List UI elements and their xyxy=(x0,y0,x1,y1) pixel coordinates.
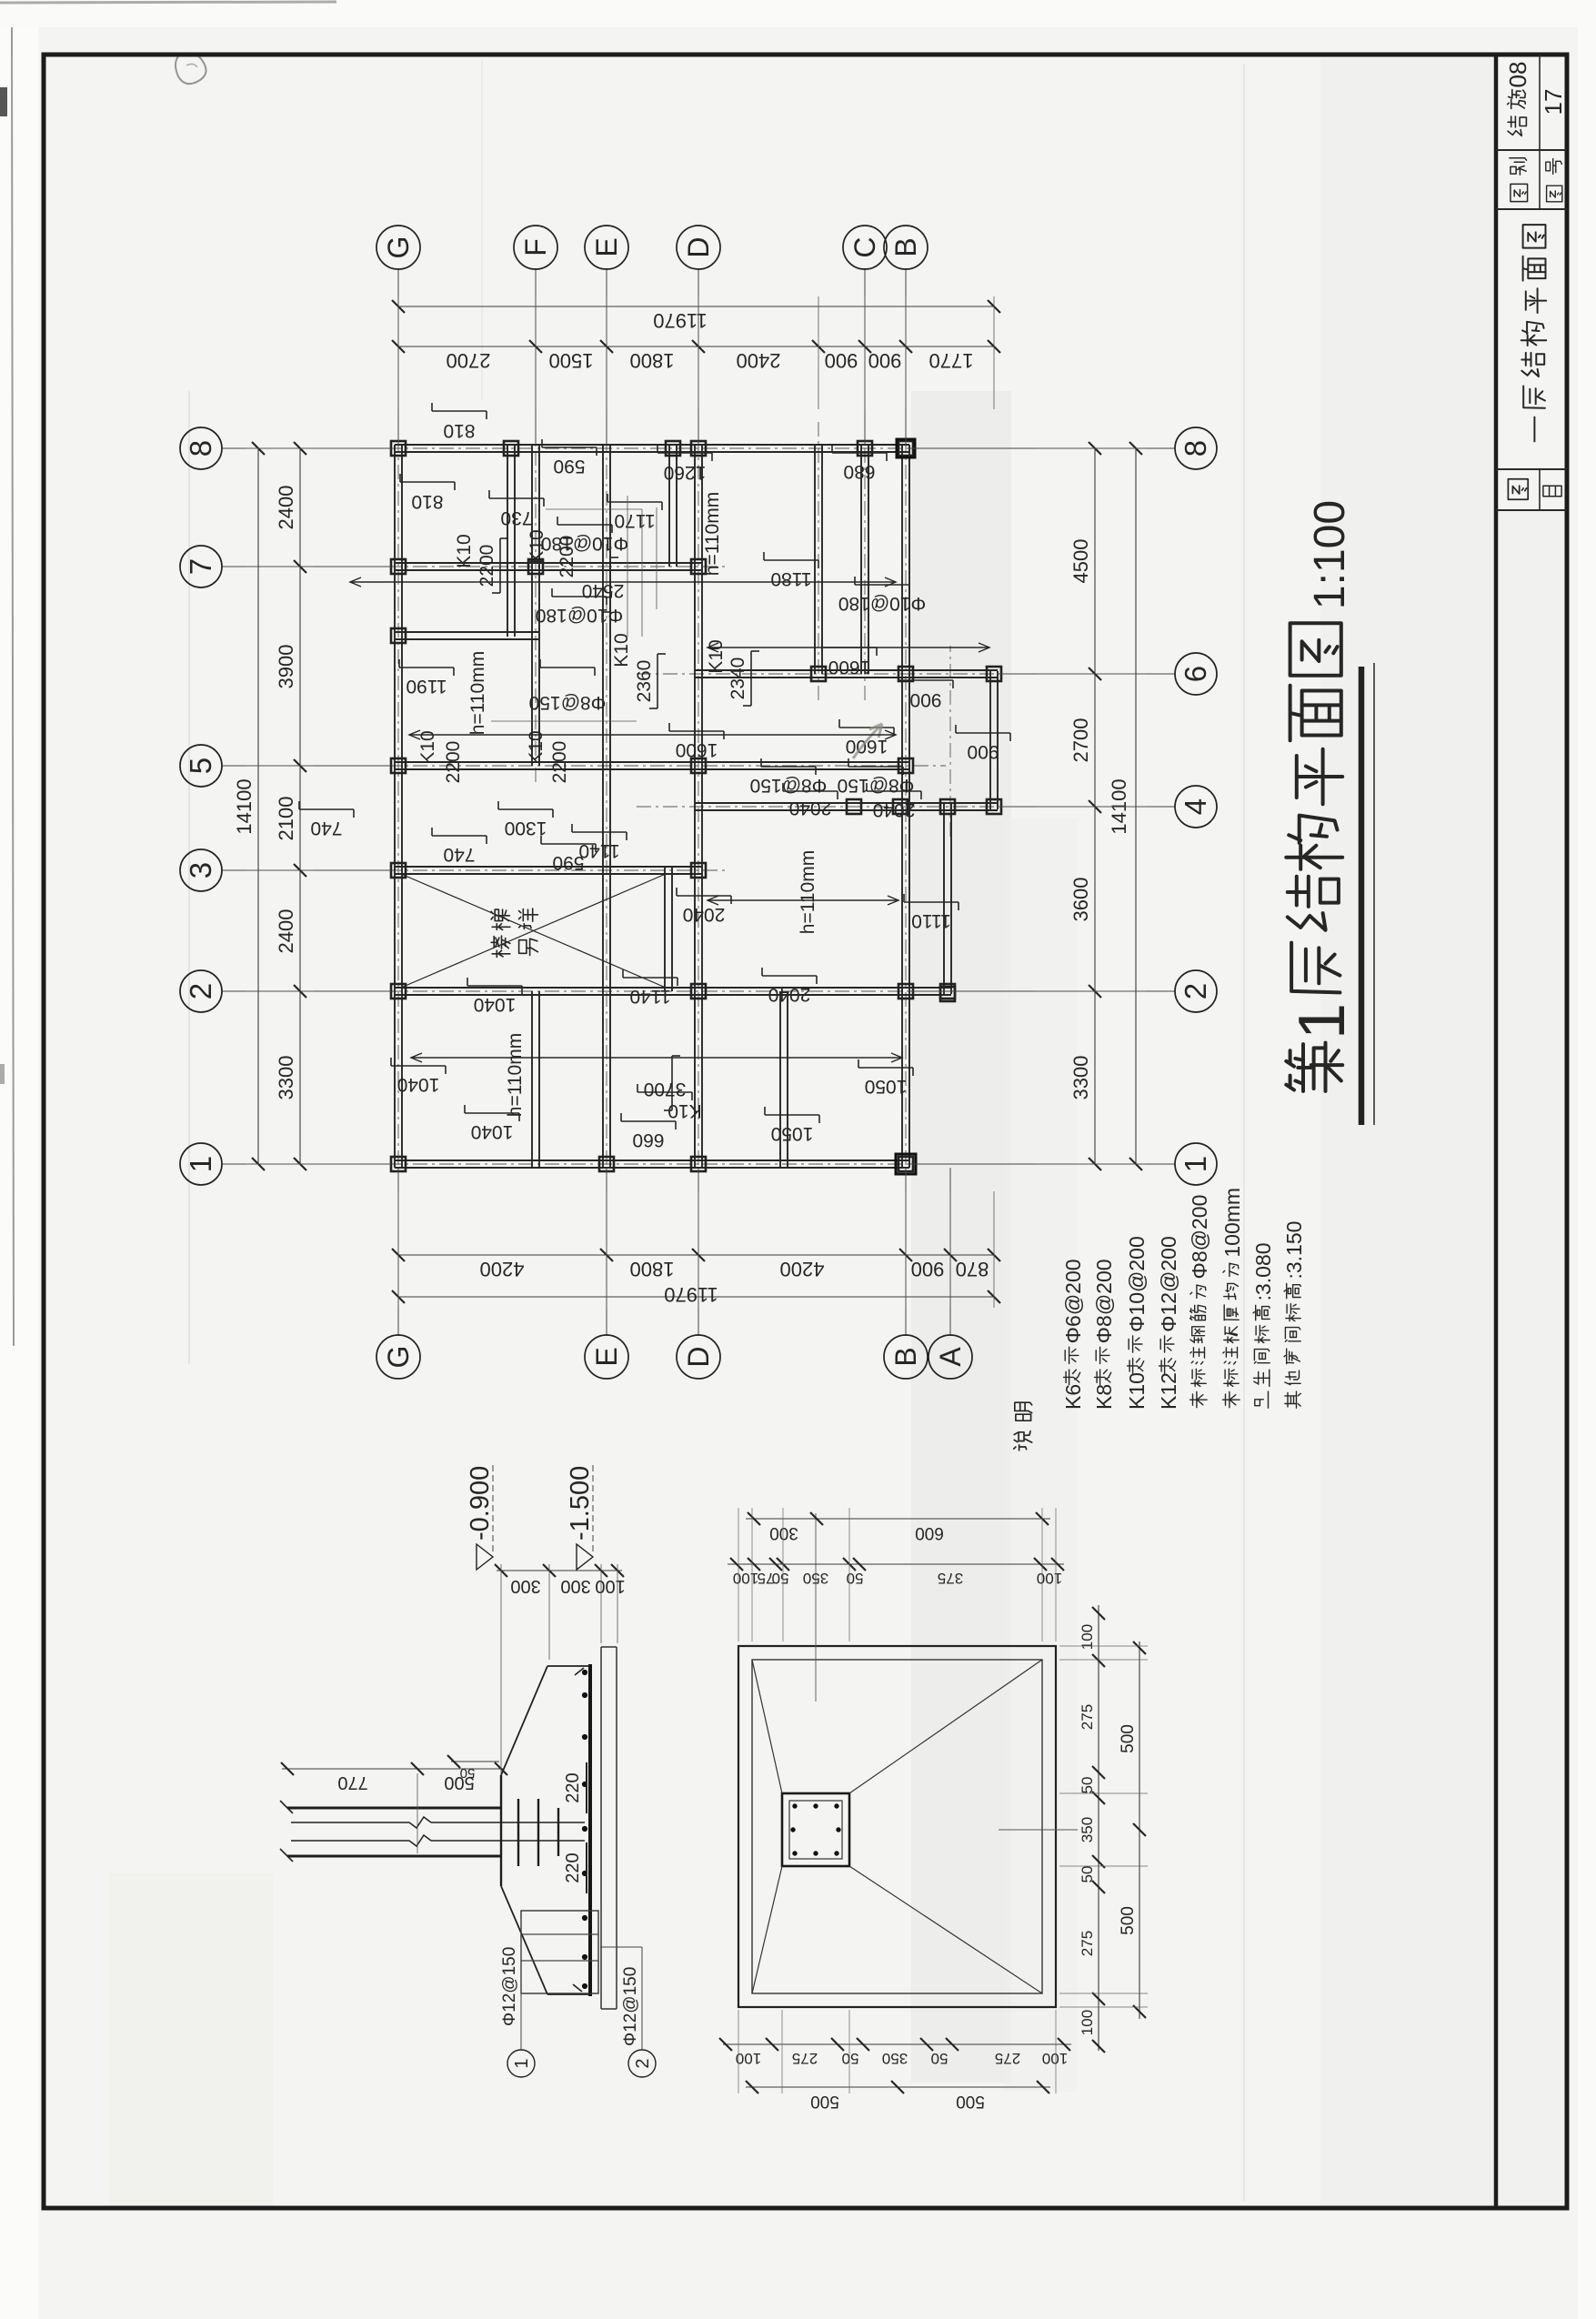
svg-text:1: 1 xyxy=(1286,1003,1359,1039)
svg-text:Φ12@150: Φ12@150 xyxy=(621,1967,640,2046)
plan dim chain bottom outer 500/500 xyxy=(1139,1641,1140,2019)
svg-text:K10: K10 xyxy=(611,633,632,667)
svg-text:3900: 3900 xyxy=(275,645,297,689)
right overall dimension 11970 xyxy=(398,306,994,307)
svg-text:100: 100 xyxy=(1037,1570,1062,1587)
beam along axis 5 xyxy=(395,768,909,770)
beam along axis 4 xyxy=(695,809,998,811)
footing slopes xyxy=(501,1886,547,1994)
svg-text:Φ10@180: Φ10@180 xyxy=(838,593,926,614)
svg-text:100: 100 xyxy=(1042,2050,1068,2067)
svg-text:3300: 3300 xyxy=(275,1056,297,1100)
plan dim chain right outer 300/600 xyxy=(746,1518,1050,1520)
plan dim chain left outer 500/500 xyxy=(746,2086,1050,2088)
svg-text:1600: 1600 xyxy=(676,739,718,760)
svg-text:1: 1 xyxy=(184,1156,217,1172)
centerline right xyxy=(815,1513,817,1702)
intermediate beam stair zone xyxy=(779,991,781,1168)
extension lines top xyxy=(246,1163,314,1165)
footing plan outer square xyxy=(738,1646,1056,2007)
section dim 770/500 xyxy=(282,1768,503,1770)
svg-text:900: 900 xyxy=(911,1258,945,1280)
right dimension chain (letters) xyxy=(398,346,994,347)
svg-text:11970: 11970 xyxy=(664,1283,718,1306)
svg-text:350: 350 xyxy=(803,1570,828,1587)
svg-text:h=110mm: h=110mm xyxy=(798,850,818,934)
svg-text:50: 50 xyxy=(1079,1777,1096,1794)
svg-text:900: 900 xyxy=(868,349,902,372)
title block labels 图别 图号 xyxy=(1511,184,1528,201)
svg-text:K10: K10 xyxy=(706,639,727,673)
wing beam lower xyxy=(943,804,945,994)
svg-text:-0.900: -0.900 xyxy=(466,1466,495,1541)
svg-text:Φ12@150: Φ12@150 xyxy=(500,1947,519,2026)
beam along axis 6 xyxy=(695,677,998,678)
left dimension chain (letters) xyxy=(398,1254,994,1256)
svg-text:1: 1 xyxy=(1179,1156,1212,1172)
ledge dim 50 xyxy=(451,1761,499,1762)
svg-text:1:100: 1:100 xyxy=(1306,500,1354,609)
svg-text:100: 100 xyxy=(736,2050,761,2067)
plan dim chain bottom inner xyxy=(1098,1605,1099,2051)
extension lines right xyxy=(738,1508,739,1641)
svg-text:B: B xyxy=(889,1347,922,1366)
axis letter bubbles (left column) xyxy=(397,1168,399,1336)
svg-text:K6: K6 xyxy=(1061,1384,1085,1410)
svg-text:375: 375 xyxy=(938,1570,963,1587)
rebar callout 2 xyxy=(628,2050,656,2077)
svg-text:1260: 1260 xyxy=(664,462,707,483)
wall rebar lines with break xyxy=(291,1840,409,1842)
section dim 300/300/100 xyxy=(497,1570,622,1571)
svg-text:h=110mm: h=110mm xyxy=(505,1033,526,1117)
svg-text:3600: 3600 xyxy=(1069,878,1092,922)
stair wall beam xyxy=(664,868,666,991)
leader brackets for labels xyxy=(499,538,501,593)
rebar hooks xyxy=(573,1984,582,1992)
svg-text:11970: 11970 xyxy=(653,309,708,332)
intermediate beam between 7 and 8 xyxy=(395,638,538,640)
svg-text:3: 3 xyxy=(184,862,217,878)
svg-text:1140: 1140 xyxy=(629,986,670,1007)
svg-text:1110: 1110 xyxy=(911,910,951,931)
title block cell lines xyxy=(1496,509,1567,511)
svg-text:1190: 1190 xyxy=(406,676,447,697)
title underline xyxy=(1359,667,1365,1125)
svg-text:K10: K10 xyxy=(668,1100,701,1121)
beam along axis G (top edge) xyxy=(394,445,396,1168)
svg-text:2400: 2400 xyxy=(275,909,297,954)
svg-text:900: 900 xyxy=(909,689,941,710)
svg-text:6: 6 xyxy=(1179,666,1212,682)
svg-text:100: 100 xyxy=(595,1576,625,1596)
svg-text:870: 870 xyxy=(956,1258,989,1280)
notes header 说明 xyxy=(1014,1431,1032,1451)
stair text 楼梯另详 xyxy=(491,936,510,957)
top dimension chain (axes 1-8) xyxy=(299,448,301,1164)
svg-text:8: 8 xyxy=(184,440,217,457)
svg-text:590: 590 xyxy=(553,456,585,477)
svg-text:1040: 1040 xyxy=(474,994,517,1015)
beam along axis 1 (left edge) xyxy=(395,1167,909,1169)
footing ledge top xyxy=(500,1775,502,1886)
svg-text:600: 600 xyxy=(915,1523,944,1542)
svg-text:350: 350 xyxy=(882,2050,908,2067)
svg-text:Φ10@180: Φ10@180 xyxy=(541,533,628,554)
svg-text:E: E xyxy=(590,237,623,256)
svg-text:2400: 2400 xyxy=(275,486,297,530)
svg-text:2200: 2200 xyxy=(549,741,570,784)
adjacent strip footing outline xyxy=(521,1911,598,1993)
svg-text:2: 2 xyxy=(184,983,217,999)
beam along axis 3 xyxy=(395,873,702,875)
pyramid diagonals xyxy=(752,1866,782,1993)
title block values 结施08 / 17 xyxy=(1508,116,1526,136)
svg-text:1800: 1800 xyxy=(630,349,675,372)
corner column at B/1 (solid) xyxy=(896,1154,916,1174)
svg-text:D: D xyxy=(682,1346,715,1367)
footing bottom rebar dots xyxy=(582,1983,587,1988)
svg-text:1040: 1040 xyxy=(471,1121,514,1142)
svg-text:1300: 1300 xyxy=(505,818,547,838)
svg-text:2700: 2700 xyxy=(1069,718,1092,763)
svg-text:4200: 4200 xyxy=(780,1258,825,1280)
svg-text:1500: 1500 xyxy=(549,349,594,372)
svg-text:500: 500 xyxy=(956,2092,985,2111)
svg-text:2040: 2040 xyxy=(768,984,811,1005)
svg-text:660: 660 xyxy=(632,1129,664,1150)
svg-text:Φ8@150: Φ8@150 xyxy=(750,775,828,796)
svg-text:Φ12@200: Φ12@200 xyxy=(1157,1236,1180,1332)
svg-text:275: 275 xyxy=(1079,1931,1096,1956)
svg-text:Φ6@200: Φ6@200 xyxy=(1061,1259,1085,1343)
vertical grid axis centerlines 1-8 xyxy=(360,1163,946,1165)
axis letter bubbles (right column) xyxy=(397,268,399,445)
svg-text:2: 2 xyxy=(1179,983,1212,999)
svg-text:3300: 3300 xyxy=(1069,1056,1092,1100)
beam along axis C' xyxy=(814,445,816,674)
intermediate beam E-D upper xyxy=(668,445,670,567)
centerline bottom stub xyxy=(999,1829,1078,1831)
footing bottom (bold) xyxy=(588,1664,592,1996)
footing plan column box xyxy=(782,1793,849,1866)
svg-text:K10: K10 xyxy=(526,730,547,764)
stairwell cross (楼梯另详) xyxy=(401,874,666,988)
svg-text:1800: 1800 xyxy=(630,1258,675,1280)
beam along axis E xyxy=(602,445,604,1168)
svg-text:08: 08 xyxy=(1504,62,1531,88)
svg-text:350: 350 xyxy=(1079,1817,1096,1842)
svg-text:275: 275 xyxy=(1079,1704,1096,1730)
svg-text:740: 740 xyxy=(443,844,475,865)
scan gray bands xyxy=(911,391,1011,2083)
svg-text:E: E xyxy=(590,1347,623,1366)
column squares xyxy=(391,1157,406,1171)
plan dim chain left inner xyxy=(723,2043,1071,2045)
svg-text:2360: 2360 xyxy=(634,660,655,703)
svg-text:740: 740 xyxy=(310,818,342,838)
svg-text:17: 17 xyxy=(1540,89,1567,115)
svg-text:2200: 2200 xyxy=(443,741,464,784)
left overall dimension 11970 xyxy=(398,1296,994,1298)
svg-text:900: 900 xyxy=(825,349,858,372)
title block drawing title 一层结构平面图 xyxy=(1533,417,1535,442)
pencil smudge arrow near 2540 xyxy=(853,724,882,758)
svg-text:4: 4 xyxy=(1179,798,1212,815)
svg-text:275: 275 xyxy=(995,2050,1020,2067)
svg-text:2: 2 xyxy=(633,2058,653,2068)
svg-text:A: A xyxy=(934,1347,967,1367)
beam along axis 2 xyxy=(395,994,951,996)
svg-text:C: C xyxy=(848,236,881,257)
svg-text:K8: K8 xyxy=(1092,1384,1116,1410)
svg-text:1040: 1040 xyxy=(397,1074,440,1095)
svg-text:2700: 2700 xyxy=(447,349,491,372)
svg-text:50: 50 xyxy=(460,1765,476,1781)
svg-text::3.080: :3.080 xyxy=(1251,1242,1275,1300)
svg-text:h=110mm: h=110mm xyxy=(702,492,723,576)
svg-text:4200: 4200 xyxy=(480,1258,525,1280)
level marker -1.500 xyxy=(592,1462,594,1551)
svg-text:D: D xyxy=(682,236,715,257)
svg-text:50: 50 xyxy=(931,2050,949,2067)
svg-text:100: 100 xyxy=(733,1570,758,1587)
svg-text:4500: 4500 xyxy=(1069,539,1092,584)
axis number bubbles (bottom row) xyxy=(909,1163,1175,1165)
intermediate beam G-F xyxy=(507,445,508,637)
svg-text:8: 8 xyxy=(1179,440,1212,457)
svg-text::3.150: :3.150 xyxy=(1282,1221,1306,1280)
beam along axis B (bottom edge) xyxy=(901,445,903,1168)
svg-text:50: 50 xyxy=(847,1570,864,1587)
svg-text:Φ8@200: Φ8@200 xyxy=(1092,1259,1116,1343)
svg-text:275: 275 xyxy=(792,2050,818,2067)
footing side edges xyxy=(547,1993,589,1995)
footing section: wall leg lines xyxy=(287,1855,501,1858)
svg-text:1050: 1050 xyxy=(865,1076,908,1097)
main title 第1层结构平面图 1:100 xyxy=(1286,1043,1342,1091)
svg-text:100: 100 xyxy=(1079,2010,1096,2035)
svg-text:220: 220 xyxy=(563,1772,583,1802)
rebar callout 1 xyxy=(507,2050,535,2077)
axis number bubbles (top row) xyxy=(222,1163,391,1165)
svg-text:300: 300 xyxy=(769,1523,798,1542)
svg-text:500: 500 xyxy=(1119,1906,1138,1935)
svg-text:1770: 1770 xyxy=(929,349,974,372)
svg-text:14100: 14100 xyxy=(233,778,256,834)
svg-text:810: 810 xyxy=(411,491,443,512)
title block separator xyxy=(1494,55,1499,2208)
svg-text:-1.500: -1.500 xyxy=(566,1466,595,1541)
svg-text:2540: 2540 xyxy=(582,580,625,601)
svg-text:2200: 2200 xyxy=(477,545,497,587)
level marker -0.900 xyxy=(492,1462,494,1551)
svg-text:810: 810 xyxy=(443,420,475,441)
svg-text:300: 300 xyxy=(560,1576,590,1596)
svg-text:2100: 2100 xyxy=(275,797,297,841)
svg-text:F: F xyxy=(519,238,552,256)
extension lines left xyxy=(738,2010,739,2093)
svg-text:2340: 2340 xyxy=(728,658,748,700)
plan dim chain right inner xyxy=(728,1563,1064,1565)
svg-text:1600: 1600 xyxy=(828,657,871,678)
extension lines bottom xyxy=(1059,2006,1148,2008)
svg-text:500: 500 xyxy=(1119,1724,1138,1753)
wall break marks xyxy=(280,1849,293,1862)
svg-text:h=110mm: h=110mm xyxy=(467,651,488,735)
blinding slab xyxy=(600,1647,602,2009)
svg-text:730: 730 xyxy=(500,507,532,528)
svg-text:Φ8@150: Φ8@150 xyxy=(838,775,915,796)
svg-text:50: 50 xyxy=(1079,1866,1096,1883)
slab span arrows xyxy=(350,581,896,583)
footing plan inner square xyxy=(752,1660,1042,1993)
svg-text:G: G xyxy=(382,236,415,259)
svg-text:3700: 3700 xyxy=(644,1079,687,1099)
scanner edge line xyxy=(12,27,14,1346)
extra extension lines (E-D corridor) xyxy=(627,496,628,637)
svg-text:50: 50 xyxy=(772,1570,789,1587)
svg-text:770: 770 xyxy=(337,1772,367,1792)
svg-text:1180: 1180 xyxy=(770,568,811,589)
svg-text:2040: 2040 xyxy=(873,799,916,820)
svg-text:680: 680 xyxy=(843,461,875,482)
bottom overall dimension 14100 xyxy=(1135,448,1137,1164)
svg-text:1050: 1050 xyxy=(771,1123,814,1144)
wing beam bottom edge xyxy=(989,671,991,809)
svg-text:Φ10@200: Φ10@200 xyxy=(1125,1236,1149,1332)
svg-text:K10: K10 xyxy=(1125,1372,1149,1410)
svg-text:220: 220 xyxy=(563,1852,583,1882)
smudge top-left xyxy=(176,54,206,84)
svg-text:2040: 2040 xyxy=(789,798,832,818)
svg-text:7: 7 xyxy=(184,558,217,575)
svg-text:2400: 2400 xyxy=(737,349,781,372)
horizontal grid axis centerlines A-G xyxy=(397,418,399,1191)
beam along axis 7 xyxy=(395,569,702,571)
svg-text:5: 5 xyxy=(184,758,217,774)
svg-text:K10: K10 xyxy=(454,534,475,567)
neck tie bars xyxy=(517,1799,519,1866)
svg-text:500: 500 xyxy=(810,2092,839,2111)
svg-text:B: B xyxy=(889,237,922,256)
svg-text:Φ8@200: Φ8@200 xyxy=(1188,1195,1211,1280)
svg-text:900: 900 xyxy=(967,741,999,762)
faint scan streaks xyxy=(188,391,190,1364)
svg-text:2040: 2040 xyxy=(683,904,726,925)
beam along axis 8 (right edge) xyxy=(395,451,909,453)
beam along axis C xyxy=(860,445,862,674)
beam along axis F xyxy=(531,445,533,766)
title block text 图目 xyxy=(1508,479,1528,499)
top overall dimension 14100 xyxy=(257,448,259,1164)
svg-text:Φ8@150: Φ8@150 xyxy=(529,692,607,713)
svg-text:1170: 1170 xyxy=(614,510,655,531)
svg-text:K10: K10 xyxy=(417,730,438,764)
svg-text:100mm: 100mm xyxy=(1220,1188,1244,1258)
bottom dimension chain (axes 1-8) xyxy=(1094,448,1096,1164)
svg-text:300: 300 xyxy=(510,1576,540,1596)
svg-text:50: 50 xyxy=(842,2050,859,2067)
svg-text:K12: K12 xyxy=(1157,1372,1180,1410)
beam along axis D xyxy=(694,445,696,1168)
column rebar dots xyxy=(793,1852,797,1855)
svg-text:590: 590 xyxy=(552,852,584,873)
svg-text:G: G xyxy=(382,1346,415,1369)
svg-text:1: 1 xyxy=(512,2058,532,2068)
